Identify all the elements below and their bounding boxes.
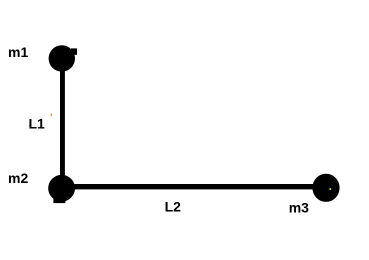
link L2 (horizontal rod) [62, 184, 326, 189]
svg-text:m1: m1 [8, 44, 28, 60]
svg-text:L1: L1 [29, 115, 46, 131]
svg-text:m2: m2 [8, 170, 28, 186]
svg-text:m3: m3 [289, 199, 309, 215]
svg-text:L2: L2 [165, 198, 182, 214]
mass m3 [312, 174, 339, 202]
stray orange speck [51, 114, 53, 117]
mass m2 [48, 175, 75, 203]
mass m1 [49, 45, 77, 71]
link L1 (vertical rod) [60, 58, 65, 188]
